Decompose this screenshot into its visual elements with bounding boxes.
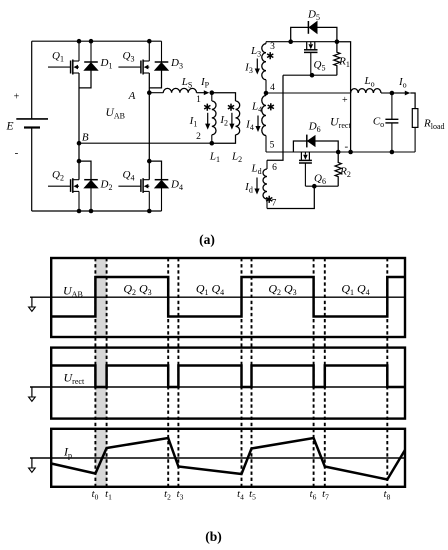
node A dot: [147, 90, 152, 95]
waveform I_p: [51, 438, 405, 480]
ground symbol panel 1: [29, 297, 36, 311]
wire minus rail: [266, 151, 415, 153]
panel U_rect box: [51, 348, 405, 419]
wire top rail: [32, 40, 162, 42]
wire D3 anode down and join: [149, 70, 161, 88]
winding L1: [212, 93, 216, 144]
node B dot: [77, 141, 82, 146]
svg-text:(b): (b): [205, 529, 222, 544]
winding L4: [262, 93, 266, 152]
output node dot: [390, 91, 395, 96]
wire D6 branch: [293, 141, 338, 152]
junction dot on minus rail: [348, 150, 353, 155]
diode D5: [308, 21, 317, 34]
dashed timing lines t0-t8: [95, 258, 387, 487]
wire Q6 gate network bottom: [305, 185, 338, 187]
resistor Rload: [412, 109, 418, 128]
wire left rail lower: [31, 128, 33, 212]
wire Q4 drain: [148, 143, 150, 180]
wire node 3 to rectifier: [266, 41, 291, 43]
wire gate drive from node 6: [267, 75, 283, 160]
diode D3: [155, 62, 169, 70]
transistor Q2: [48, 178, 79, 193]
wire node 4 to output plus line: [266, 92, 351, 94]
wire Q6 drain-source rail: [293, 151, 338, 153]
inductor Lo: [351, 89, 381, 93]
svg-text:4: 4: [270, 83, 275, 93]
polarity star L2: [228, 104, 234, 111]
svg-text:3: 3: [270, 42, 275, 52]
svg-text:6: 6: [272, 163, 277, 173]
wire Q4 source: [148, 191, 150, 211]
shaded commutation interval t0-t1 panel 2: [95, 348, 106, 419]
diode D1: [84, 62, 98, 70]
wire Q3 source to node A: [148, 73, 150, 143]
junction dot D2 branch: [77, 159, 82, 164]
junction dot top rail D1: [89, 39, 94, 44]
wire Q2 drain from B: [78, 143, 80, 180]
junction dot D4 branch: [147, 159, 152, 164]
node 1 dot: [210, 90, 215, 95]
battery E: [16, 119, 48, 128]
wire Rload bottom: [414, 127, 416, 152]
current arrow Id: [256, 178, 258, 190]
waveform U_AB: [51, 277, 405, 317]
transistor Q6: [299, 152, 312, 186]
wire node A to Ls: [149, 92, 163, 94]
panel U_AB box: [51, 258, 405, 337]
svg-text:+: +: [14, 92, 20, 103]
wire D2 anode: [90, 188, 92, 211]
polarity star Ld: [266, 196, 272, 203]
svg-text:Q2 Q3: Q2 Q3: [268, 282, 296, 298]
svg-text:-: -: [15, 147, 19, 159]
polarity star L3: [267, 52, 273, 59]
wire gate drive from node 7: [267, 186, 314, 208]
wire Lo to output node: [381, 92, 392, 94]
svg-text:7: 7: [272, 199, 277, 209]
ground symbol panel 2: [29, 387, 36, 401]
current arrow I1: [207, 113, 209, 125]
diode D2: [84, 180, 98, 188]
junction dot Q6 gate node: [312, 184, 317, 189]
junction dot bottom rail Q4: [147, 209, 152, 214]
svg-text:E: E: [5, 121, 13, 133]
shaded commutation interval t0-t1 panel 1: [95, 258, 106, 337]
polarity star L1: [204, 104, 210, 111]
transistor Q3: [118, 60, 149, 75]
junction dot bottom rail D2: [89, 209, 94, 214]
winding Ld auxiliary: [263, 160, 267, 208]
svg-text:2: 2: [196, 132, 201, 142]
capacitor Co: [385, 93, 398, 152]
polarity star L4: [268, 103, 274, 110]
wire rectifier top to minus rail: [337, 42, 351, 152]
junction dot bottom rail Q2: [77, 209, 82, 214]
current arrow I4: [257, 116, 259, 128]
wire D5 branch: [291, 27, 337, 41]
winding L3: [262, 42, 266, 93]
svg-text:B: B: [82, 132, 89, 144]
wire left rail upper: [31, 41, 33, 119]
shaded commutation interval t0-t1 panel 3: [95, 429, 106, 487]
svg-text:1: 1: [196, 95, 201, 105]
junction dot D5 left: [288, 39, 293, 44]
waveform U_rect: [51, 366, 405, 388]
ground symbol panel 3: [29, 458, 36, 472]
svg-text:(a): (a): [199, 232, 215, 247]
junction dot top rail Q1: [77, 39, 82, 44]
node 4 dot: [264, 91, 269, 96]
junction dot top rail Q3: [147, 39, 152, 44]
svg-text:-: -: [344, 141, 348, 153]
wire Q5 drain-source rail: [291, 41, 337, 43]
wire D4 anode: [161, 188, 163, 211]
wire D4 branch top: [149, 161, 161, 180]
wire D1 anode down and join: [79, 70, 91, 88]
junction dot Co bottom: [390, 150, 395, 155]
transistor Q1: [48, 60, 79, 75]
panel U_rect zero axis: [30, 386, 405, 388]
panel I_p box: [51, 429, 405, 487]
wire to Rload top: [410, 93, 415, 109]
panel I_p zero axis: [30, 457, 405, 459]
wire Q5 gate network bottom: [283, 74, 337, 76]
resistor R2: [335, 152, 341, 186]
svg-text:5: 5: [270, 141, 275, 151]
wire bottom rail: [32, 210, 162, 212]
svg-text:Q2 Q3: Q2 Q3: [123, 282, 151, 298]
wire node B to node 2: [79, 142, 212, 144]
svg-text:Q1 Q4: Q1 Q4: [196, 282, 224, 298]
svg-text:Q1 Q4: Q1 Q4: [341, 282, 369, 298]
panel U_AB zero axis: [30, 296, 405, 298]
junction dot D5 right: [335, 39, 340, 44]
junction dot Q5 gate: [310, 73, 315, 78]
wire D3 branch top: [161, 41, 163, 62]
current arrow I2: [231, 113, 233, 125]
current arrow I3: [256, 59, 258, 70]
resistor R1: [334, 42, 340, 75]
wire Ls to Ip arrow into node 1: [197, 92, 205, 94]
transistor Q5: [304, 42, 318, 75]
wire node1 to L2 top: [212, 93, 236, 101]
node 2 dot: [210, 141, 215, 146]
winding L2: [236, 101, 240, 135]
wire L2 bottom: [212, 135, 236, 143]
wire Q1 source to D1 junction to node B: [78, 73, 80, 143]
wire Q2 source: [78, 191, 80, 211]
inductor Ls: [163, 88, 196, 92]
wire Q1 drain: [78, 41, 80, 61]
svg-text:A: A: [128, 90, 136, 102]
wire D2 branch top: [79, 161, 91, 180]
transistor Q4: [118, 178, 149, 193]
current arrow Io: [392, 92, 406, 94]
wire Q3 drain: [148, 41, 150, 61]
diode D4: [155, 180, 169, 188]
time axis labels t0-t8: [92, 489, 391, 501]
junction dot R2 top: [336, 150, 341, 155]
diode D6: [307, 135, 315, 148]
wire D1 branch top: [90, 41, 92, 62]
svg-text:+: +: [342, 95, 348, 106]
